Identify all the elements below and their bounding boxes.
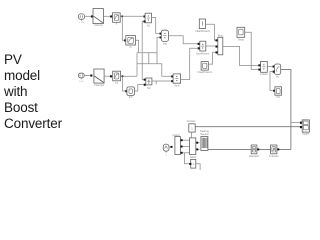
long wire CT out to scope in2	[195, 126, 300, 128]
svg-text:SnwPower1: SnwPower1	[196, 52, 210, 55]
source P2	[197, 62, 212, 75]
svg-text:1 kW: 1 kW	[79, 81, 84, 83]
R out to P0 in1	[169, 36, 199, 44]
N1 in2 stub	[142, 20, 144, 22]
S2 out with branch	[121, 75, 138, 77]
svg-text:th1: th1	[276, 96, 280, 99]
RB out up to N2 in2	[134, 85, 144, 91]
A out to B	[267, 65, 273, 67]
block TH1	[126, 36, 136, 49]
svg-text:tri: tri	[165, 153, 167, 156]
T1 outputs to T2	[180, 139, 189, 141]
block T2	[190, 138, 196, 155]
CT down into T2	[190, 132, 192, 138]
demux T1	[172, 134, 180, 155]
lookup L1 (I-V curve)	[93, 9, 103, 28]
bus v x142 long	[142, 21, 144, 79]
source P1	[195, 19, 210, 33]
source G (repeating sequence)	[163, 144, 169, 156]
bus h1 y52.8	[137, 52, 157, 54]
svg-text:2 Gain: 2 Gain	[260, 73, 268, 76]
memory block MEM	[275, 87, 282, 99]
branch S1 down to TH1	[122, 16, 125, 40]
B in2 loop down to MEM	[270, 72, 274, 91]
block A	[260, 61, 268, 76]
T2 outs to ST	[196, 142, 200, 144]
svg-text:I-Vtemp: I-Vtemp	[94, 24, 103, 27]
branch down to GN	[184, 153, 190, 164]
striped block ST (PWM)	[200, 130, 209, 151]
svg-text:Mux: Mux	[218, 34, 223, 37]
bus v to R in2	[157, 37, 160, 64]
K out to A in2	[245, 32, 259, 69]
svg-text:Vout: Vout	[174, 84, 179, 87]
block CH2	[269, 145, 279, 158]
branch down to RB	[123, 76, 126, 91]
block S1	[113, 13, 121, 26]
bottom chain wire	[208, 148, 291, 150]
mux out to A in1	[223, 46, 259, 65]
wire L1 to S1	[103, 15, 110, 17]
svg-text:N1: N1	[147, 24, 151, 27]
bus v x137 down	[136, 53, 138, 76]
TH1 out down to bus	[136, 40, 139, 53]
wire C1 to L1	[85, 15, 92, 17]
svg-text:T: T	[116, 23, 118, 26]
bus v x148.8	[148, 53, 150, 64]
source C2	[78, 73, 84, 83]
svg-text:Contact: Contact	[187, 120, 196, 123]
wire L2 to S2	[104, 75, 110, 77]
svg-text:Scope: Scope	[302, 132, 310, 135]
bus h2 y63.8	[137, 64, 172, 77]
gain1 block GN	[190, 156, 197, 168]
V out up to P0 in2	[181, 48, 199, 79]
G out to T1	[169, 146, 171, 148]
svg-text:Saturator: Saturator	[249, 155, 259, 158]
block N2	[146, 78, 152, 90]
svg-text:int: int	[276, 76, 279, 79]
lookup L2	[94, 69, 105, 87]
svg-text:C-Scope: C-Scope	[269, 155, 279, 158]
N1 out to R in1	[152, 18, 161, 34]
svg-text:Temp: Temp	[238, 39, 245, 42]
N2 out to V in2	[152, 80, 172, 82]
svg-text:ClearPower1: ClearPower1	[197, 71, 212, 74]
svg-text:ClearPowerS: ClearPowerS	[195, 30, 210, 33]
block N1	[145, 13, 151, 27]
block S2	[113, 71, 121, 85]
P2 out to mux in3	[208, 52, 216, 64]
block V	[173, 74, 181, 88]
wire S1 to N1 with branch down	[120, 15, 144, 17]
block P0 SnwPower	[196, 41, 210, 55]
rounded block R	[161, 30, 168, 45]
svg-text:th: th	[130, 46, 133, 49]
source K	[237, 27, 245, 41]
svg-text:1 kW: 1 kW	[79, 22, 84, 24]
B out down the right side	[281, 70, 291, 150]
block SAT	[249, 145, 259, 158]
svg-text:T1: T1	[115, 82, 119, 85]
scope branch	[291, 122, 300, 124]
title text	[4, 52, 62, 132]
svg-text:Gain1: Gain1	[190, 156, 197, 159]
scope SC	[302, 120, 310, 135]
rounded block RB	[127, 87, 134, 99]
svg-text:Isat: Isat	[163, 43, 167, 46]
GN out	[196, 164, 200, 170]
svg-text:Neutral: Neutral	[200, 133, 209, 136]
contact block CT	[187, 120, 196, 132]
svg-text:N2: N2	[147, 87, 151, 90]
P0 out to mux in2	[206, 45, 216, 47]
source C1 (signal generator)	[78, 14, 84, 24]
svg-text:th2: th2	[129, 96, 133, 99]
svg-text:I-Vtemp1: I-Vtemp1	[94, 84, 105, 87]
P1 out to mux in1	[206, 24, 217, 40]
wire C2 to L2	[84, 74, 90, 76]
block B	[274, 64, 280, 79]
mux M	[218, 34, 224, 55]
